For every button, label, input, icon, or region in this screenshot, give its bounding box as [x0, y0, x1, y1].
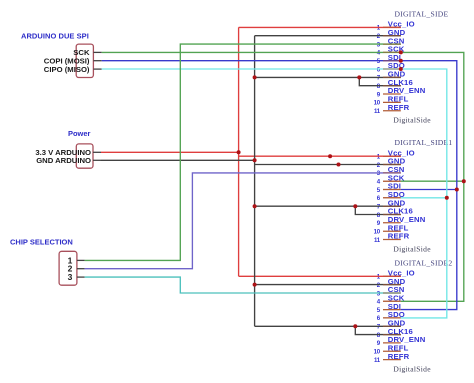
connector J4 label: Power: [68, 129, 91, 138]
junction: GND bus at DIGITAL_SIDE2 pin2: [253, 283, 257, 287]
DIGITAL_SIDE2 pin 8 CLK16: number, name, pin line: [377, 327, 413, 339]
DIGITAL_SIDE pin 11 REFR: number, name, pin line: [374, 103, 410, 115]
wire: CS2 net - Chip selection pin2 up to DIGITAL_SIDE1 pin3 CSN: [85, 173, 401, 269]
connector J2 header label DIGITAL_SIDE: [395, 9, 449, 18]
wire: SCK net - branch to DIGITAL_SIDE1 pin4: [401, 180, 464, 182]
junction: green bus at DIGITAL_SIDE1 SCK: [462, 179, 466, 183]
wire: SCK net - Arduino SCK to DIGITAL_SIDE pin4: [102, 51, 401, 53]
DIGITAL_SIDE1 pin 3 CSN: number, name, pin line: [377, 165, 405, 177]
junction: CLK16 tap DIGITAL_SIDE1: [353, 204, 357, 208]
wire: GND net - branch to DIGITAL_SIDE pin7 GND: [255, 76, 401, 78]
junction: cyan bus at DIGITAL_SIDE1 SDO: [445, 196, 449, 200]
junction: 3.3V at power feed: [237, 150, 241, 154]
DIGITAL_SIDE pin 5 SDI: number, name, pin line: [377, 53, 401, 65]
svg-text:11: 11: [374, 237, 381, 244]
svg-text:Power: Power: [68, 129, 91, 138]
wire: CS3 net - Chip selection pin3 down to DIGITAL_SIDE2 pin3 CSN: [85, 277, 401, 293]
junction: GND at power feed: [253, 158, 257, 162]
part label DigitalSide of DIGITAL_SIDE2: [393, 364, 431, 373]
junction: CLK16 tap DIGITAL_SIDE2: [353, 324, 357, 328]
wire: GND net - elbow to DIGITAL_SIDE1 pin8 CLK16: [355, 206, 401, 214]
wire: 3.3V net - branch to DIGITAL_SIDE pin1 Vcc_IO: [239, 26, 401, 28]
DIGITAL_SIDE2 pin 6 SDO: number, name, pin line: [377, 310, 405, 322]
J4 pin 2 GND ARDUINO label and leg: [36, 156, 101, 165]
wire: GND net - branch to DIGITAL_SIDE1 pin2 GND: [255, 164, 401, 166]
svg-text:CHIP SELECTION: CHIP SELECTION: [10, 238, 73, 247]
DIGITAL_SIDE1 pin 7 GND: number, name, pin line: [377, 198, 406, 210]
junction: SCK terminal DIGITAL_SIDE pin4: [399, 50, 403, 54]
connector J5 label: CHIP SELECTION: [10, 238, 73, 247]
DIGITAL_SIDE1 pin 1 Vcc_IO: number, name, pin line: [377, 148, 415, 160]
svg-text:DIGITAL_SIDE: DIGITAL_SIDE: [395, 9, 449, 18]
wire: GND net - branch to DIGITAL_SIDE1 pin7 GND: [255, 205, 401, 207]
svg-text:DIGITAL_SIDE2: DIGITAL_SIDE2: [395, 258, 453, 267]
DIGITAL_SIDE2 pin 2 GND: number, name, pin line: [377, 277, 406, 289]
svg-text:DIGITAL_SIDE1: DIGITAL_SIDE1: [395, 138, 453, 147]
DIGITAL_SIDE pin 2 GND: number, name, pin line: [377, 28, 406, 40]
DIGITAL_SIDE pin 9 DRV_ENN: number, name, pin line: [377, 86, 426, 98]
junction: GND bus at DIGITAL_SIDE pin7: [253, 75, 257, 79]
svg-text:3: 3: [68, 272, 73, 282]
pin line overlays (wire/pin blend): [383, 27, 401, 334]
junction: blue bus at DIGITAL_SIDE1 SDI: [455, 188, 459, 192]
wire: SDI net - branch to DIGITAL_SIDE1 pin5: [401, 189, 457, 191]
wire: GND net - elbow to DIGITAL_SIDE pin8 CLK16: [359, 77, 401, 85]
junction: CLK16 tap DIGITAL_SIDE: [357, 75, 361, 79]
wire: SDI net - to blue right bus and down: [401, 61, 457, 310]
J1 pin 3 CIPO (MISO) label and leg: [44, 65, 102, 74]
DIGITAL_SIDE2 pin 4 SCK: number, name, pin line: [377, 294, 405, 306]
DIGITAL_SIDE1 pin 9 DRV_ENN: number, name, pin line: [377, 215, 426, 227]
svg-text:10: 10: [374, 100, 381, 107]
wire: SCK net - to green right bus and down: [401, 52, 464, 301]
DIGITAL_SIDE2 pin 9 DRV_ENN: number, name, pin line: [377, 335, 426, 347]
junction: GND bus at DIGITAL_SIDE1 pin7: [253, 204, 257, 208]
DIGITAL_SIDE pin 3 CSN: number, name, pin line: [377, 36, 405, 48]
svg-text:11: 11: [374, 108, 381, 115]
svg-text:REFR: REFR: [388, 232, 410, 241]
DIGITAL_SIDE pin 1 Vcc_IO: number, name, pin line: [377, 20, 415, 32]
DIGITAL_SIDE1 pin 11 REFR: number, name, pin line: [374, 232, 410, 244]
connector J4 header label DIGITAL_SIDE2: [395, 258, 453, 267]
wire: 3.3V net - branch to DIGITAL_SIDE2 pin1 Vcc_IO: [239, 275, 401, 277]
svg-text:DigitalSide: DigitalSide: [393, 244, 431, 253]
wire: 3.3V net - Power pin1 to red vertical bus: [101, 151, 239, 153]
junction: SDO terminal DIGITAL_SIDE pin6: [399, 67, 403, 71]
J1 pin 1 SCK label and leg: [73, 48, 101, 57]
connector J3 header label DIGITAL_SIDE1: [395, 138, 453, 147]
wire: GND net - branch to DIGITAL_SIDE pin2 GND: [255, 35, 401, 37]
junction: GND wire DIGITAL_SIDE1: [337, 163, 341, 167]
DIGITAL_SIDE2 pin 11 REFR: number, name, pin line: [374, 352, 410, 364]
connector J4 body (Power header): [76, 144, 93, 168]
wire: 3.3V net - red vertical bus: [238, 27, 240, 276]
DIGITAL_SIDE pin 4 SCK: number, name, pin line: [377, 45, 405, 57]
DIGITAL_SIDE2 pin 10 REFL: number, name, pin line: [374, 344, 409, 356]
DIGITAL_SIDE1 pin 4 SCK: number, name, pin line: [377, 173, 405, 185]
svg-text:10: 10: [374, 349, 381, 356]
svg-text:DigitalSide: DigitalSide: [393, 116, 431, 125]
wire: GND net - branch to DIGITAL_SIDE2 pin2 GND: [255, 284, 401, 286]
wire: SDI net - Arduino COPI to DIGITAL_SIDE pin5: [102, 60, 401, 62]
junction: SDI terminal DIGITAL_SIDE pin5: [399, 59, 403, 63]
connector J5 body (Chip selection header): [59, 251, 77, 285]
DIGITAL_SIDE pin 6 SDO: number, name, pin line: [377, 61, 405, 73]
DIGITAL_SIDE2 pin 7 GND: number, name, pin line: [377, 319, 406, 331]
svg-text:REFR: REFR: [388, 103, 410, 112]
J1 pin 2 COPI (MOSI) label and leg: [44, 56, 102, 65]
part label DigitalSide of DIGITAL_SIDE1: [393, 244, 431, 253]
wire: SDO net - Arduino CIPO to DIGITAL_SIDE pin6: [102, 68, 401, 70]
connector J1 body (Arduino DUE SPI header): [76, 44, 93, 77]
DIGITAL_SIDE pin 8 CLK16: number, name, pin line: [377, 78, 413, 90]
wire: GND net - black vertical bus: [254, 36, 256, 327]
svg-text:DigitalSide: DigitalSide: [393, 364, 431, 373]
connector J1 label: ARDUINO DUE SPI: [21, 31, 89, 40]
J5 pin 3 label and leg: [68, 272, 85, 282]
DIGITAL_SIDE2 pin 5 SDI: number, name, pin line: [377, 302, 401, 314]
DIGITAL_SIDE pin 10 REFL: number, name, pin line: [374, 95, 409, 107]
svg-text:11: 11: [374, 357, 381, 364]
DIGITAL_SIDE1 pin 2 GND: number, name, pin line: [377, 157, 406, 169]
DIGITAL_SIDE1 pin 6 SDO: number, name, pin line: [377, 190, 405, 202]
svg-text:ARDUINO DUE SPI: ARDUINO DUE SPI: [21, 31, 89, 40]
DIGITAL_SIDE2 pin 3 CSN: number, name, pin line: [377, 285, 405, 297]
wire: SDO net - branch to DIGITAL_SIDE1 pin6: [401, 197, 447, 199]
DIGITAL_SIDE1 pin 5 SDI: number, name, pin line: [377, 182, 401, 194]
wire: GND net - elbow to DIGITAL_SIDE2 pin8 CLK16: [355, 326, 401, 334]
wire: GND net - branch to DIGITAL_SIDE2 pin7 GND: [255, 325, 401, 327]
junction: Vcc_IO wire DIGITAL_SIDE1: [328, 154, 332, 158]
svg-text:10: 10: [374, 229, 381, 236]
wire: 3.3V net - branch to DIGITAL_SIDE1 pin1 Vcc_IO: [239, 155, 401, 157]
DIGITAL_SIDE1 pin 10 REFL: number, name, pin line: [374, 223, 409, 235]
svg-text:REFR: REFR: [388, 352, 410, 361]
DIGITAL_SIDE pin 7 GND: number, name, pin line: [377, 70, 406, 82]
svg-text:GND ARDUINO: GND ARDUINO: [36, 156, 91, 165]
wire: GND net - Power pin2 to black vertical bus: [101, 159, 255, 161]
DIGITAL_SIDE2 pin 1 Vcc_IO: number, name, pin line: [377, 269, 415, 281]
J5 pin 2 label and leg: [68, 264, 85, 274]
part label DigitalSide of DIGITAL_SIDE: [393, 116, 431, 125]
wire: SDO net - to cyan right bus and down: [401, 69, 447, 318]
J5 pin 1 label and leg: [68, 255, 85, 265]
wire: CS1 net - Chip selection pin1 up to DIGITAL_SIDE pin3 CSN: [85, 44, 401, 260]
J4 pin 1 3.3 V ARDUINO label and leg: [35, 148, 101, 157]
svg-text:CIPO (MISO): CIPO (MISO): [44, 65, 90, 74]
DIGITAL_SIDE1 pin 8 CLK16: number, name, pin line: [377, 207, 413, 219]
